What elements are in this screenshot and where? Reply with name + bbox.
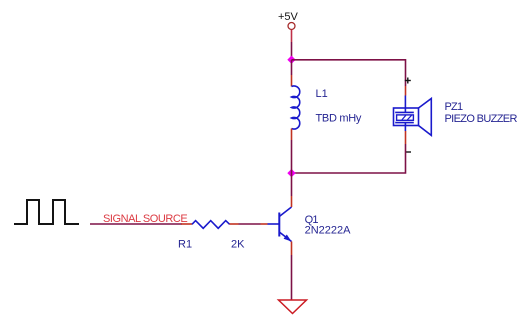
wire +5V to node A [291, 30, 293, 60]
wire node A to buzzer top (top rail) [292, 60, 406, 86]
inductor L1 body [292, 86, 300, 129]
signal source square wave [14, 200, 79, 224]
resistor R1 pin 2 [230, 223, 239, 225]
svg-text:PIEZO BUZZER: PIEZO BUZZER [445, 113, 518, 125]
wire signal source to R1 [90, 223, 182, 225]
buzzer PZ1 pin 2 [405, 131, 407, 144]
wire emitter to ground [291, 255, 293, 300]
buzzer PZ1 body [394, 96, 432, 136]
wire buzzer bottom to node B (right rail) [292, 144, 406, 173]
transistor Q1 emitter pin [291, 242, 293, 256]
label R1 value 2K [231, 239, 245, 251]
buzzer PZ1 pin 1 [405, 86, 407, 96]
wire node A to L1 [291, 60, 293, 75]
transistor Q1 body [268, 207, 292, 242]
svg-text:2N2222A: 2N2222A [305, 225, 352, 237]
resistor R1 pin 1 [181, 223, 192, 225]
transistor Q1 base pin [261, 223, 268, 225]
svg-text:L1: L1 [316, 88, 328, 100]
transistor Q1 collector pin [291, 196, 293, 207]
label L1 value TBD mHy [316, 113, 362, 125]
svg-text:TBD mHy: TBD mHy [316, 113, 362, 125]
inductor L1 pin 2 [291, 129, 293, 141]
wire R1 to Q1 base [239, 223, 261, 225]
wire L1 to node B [291, 140, 293, 173]
resistor R1 body [192, 221, 230, 229]
inductor L1 pin 1 [291, 75, 293, 87]
svg-text:+5V: +5V [278, 11, 299, 23]
node B junction [287, 169, 295, 177]
label - polarity [406, 151, 411, 153]
label Q1 value 2N2222A [305, 225, 352, 237]
label PZ1 value PIEZO BUZZER [445, 113, 518, 125]
wire node B to Q1 collector [291, 173, 293, 196]
label L1 [316, 88, 328, 100]
label +5V [278, 11, 299, 23]
node A junction [287, 56, 295, 64]
svg-text:PZ1: PZ1 [445, 101, 463, 113]
label + polarity [405, 78, 411, 84]
label R1 [178, 239, 192, 251]
label SIGNAL SOURCE [103, 213, 187, 225]
svg-text:R1: R1 [178, 239, 192, 251]
svg-text:2K: 2K [231, 239, 245, 251]
power port +5V circle [288, 23, 295, 30]
label Q1 [305, 214, 319, 226]
label PZ1 [445, 101, 463, 113]
ground [279, 300, 307, 314]
